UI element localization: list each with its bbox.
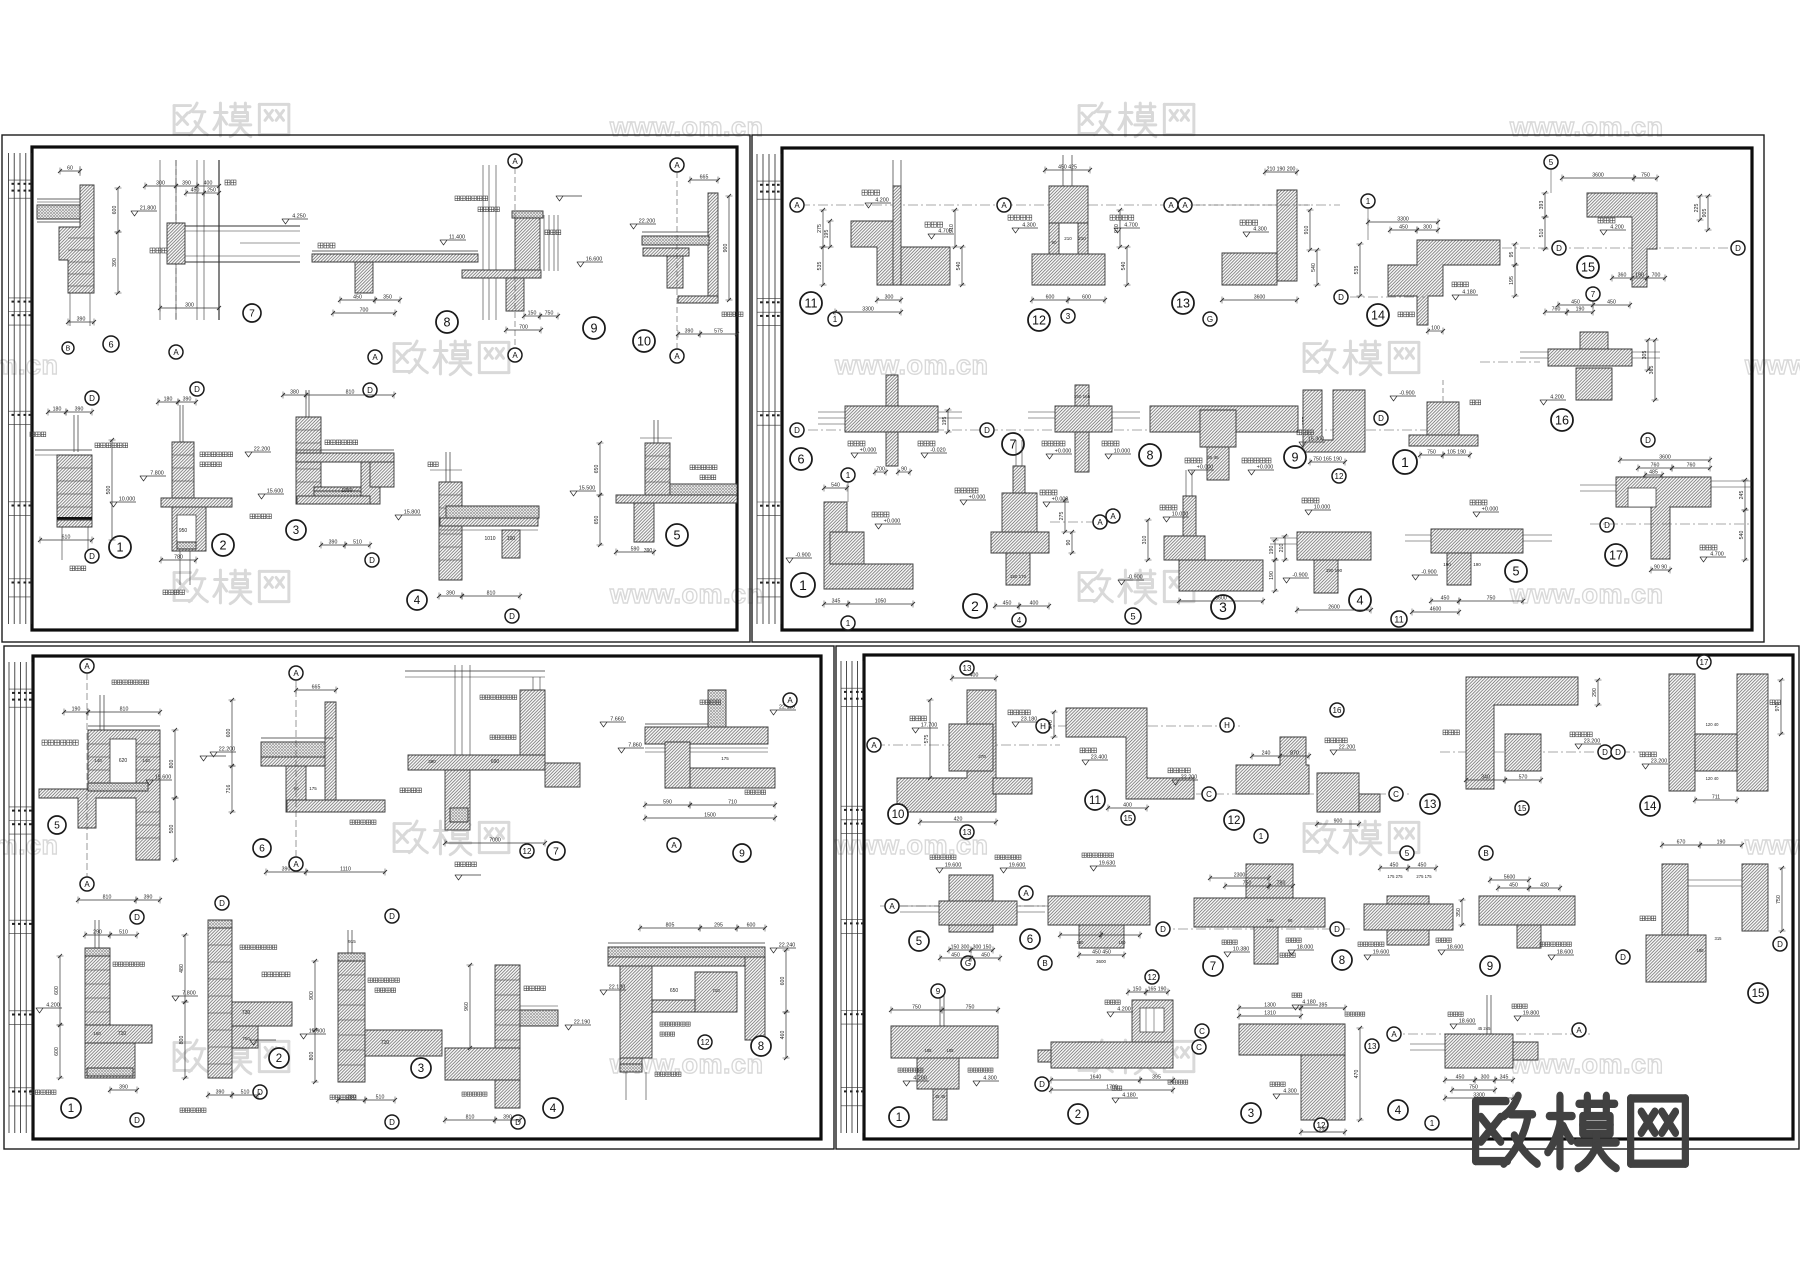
svg-text:700: 700 <box>519 325 528 331</box>
svg-text:1: 1 <box>833 315 838 324</box>
svg-text:A: A <box>1110 512 1116 521</box>
svg-text:4.180: 4.180 <box>1302 1000 1316 1006</box>
svg-text:450: 450 <box>1441 596 1450 602</box>
svg-text:3: 3 <box>293 525 299 537</box>
svg-text:5: 5 <box>1549 158 1554 167</box>
svg-text:13: 13 <box>1368 1042 1377 1051</box>
svg-text:600: 600 <box>226 729 232 738</box>
svg-text:A: A <box>1168 201 1174 210</box>
svg-text:A: A <box>1576 1026 1582 1035</box>
svg-text:D: D <box>1735 244 1741 253</box>
svg-text:D: D <box>367 386 373 395</box>
svg-text:300: 300 <box>156 181 165 187</box>
svg-text:14: 14 <box>1644 801 1657 813</box>
svg-text:150: 150 <box>1119 940 1127 945</box>
svg-text:780: 780 <box>174 555 183 561</box>
svg-text:5: 5 <box>1512 565 1519 579</box>
svg-text:12: 12 <box>1148 973 1157 982</box>
svg-text:390: 390 <box>644 548 653 554</box>
svg-text:175: 175 <box>721 756 729 761</box>
svg-text:16.600: 16.600 <box>586 257 603 263</box>
svg-text:3: 3 <box>1248 1108 1254 1120</box>
svg-text:900: 900 <box>309 991 315 1000</box>
svg-text:600: 600 <box>747 923 756 929</box>
svg-text:390: 390 <box>77 317 86 323</box>
svg-text:A: A <box>84 880 90 889</box>
svg-text:900: 900 <box>723 244 729 253</box>
svg-text:750: 750 <box>1641 173 1650 179</box>
svg-text:19.600: 19.600 <box>1373 950 1390 956</box>
svg-text:+0.000: +0.000 <box>1197 465 1214 471</box>
svg-text:A: A <box>173 348 179 357</box>
svg-text:4.300: 4.300 <box>983 1076 997 1082</box>
svg-text:810: 810 <box>346 390 355 396</box>
svg-text:A: A <box>1097 518 1103 527</box>
svg-text:D: D <box>1604 521 1610 530</box>
svg-text:150: 150 <box>528 311 537 317</box>
svg-text:D: D <box>509 612 515 621</box>
svg-text:15.600: 15.600 <box>155 775 172 781</box>
svg-text:390: 390 <box>183 397 192 403</box>
svg-text:345: 345 <box>832 599 841 605</box>
svg-text:300: 300 <box>185 303 194 309</box>
svg-text:760: 760 <box>1687 463 1696 469</box>
svg-text:300: 300 <box>885 295 894 301</box>
svg-text:450: 450 <box>191 188 200 194</box>
svg-text:10.000: 10.000 <box>1172 512 1189 518</box>
svg-text:22.190: 22.190 <box>574 1020 591 1026</box>
svg-text:250: 250 <box>207 188 216 194</box>
svg-text:22.200: 22.200 <box>219 747 236 753</box>
svg-text:395: 395 <box>1152 1075 1161 1081</box>
svg-text:1: 1 <box>896 1112 902 1124</box>
svg-text:7.660: 7.660 <box>610 717 624 723</box>
svg-text:15: 15 <box>1752 988 1765 1000</box>
svg-text:19.800: 19.800 <box>1523 1011 1540 1017</box>
svg-text:540: 540 <box>956 262 962 271</box>
svg-text:7: 7 <box>1591 290 1596 299</box>
svg-text:1: 1 <box>846 619 851 628</box>
svg-text:8: 8 <box>758 1041 764 1053</box>
svg-text:1: 1 <box>799 578 807 593</box>
svg-text:22.200: 22.200 <box>1181 775 1198 781</box>
svg-text:390: 390 <box>216 1090 225 1096</box>
svg-text:185: 185 <box>947 1048 955 1053</box>
svg-text:750: 750 <box>1487 596 1496 602</box>
svg-text:500: 500 <box>106 486 112 495</box>
svg-text:905: 905 <box>1702 209 1708 218</box>
svg-text:210: 210 <box>1078 236 1086 241</box>
svg-text:730: 730 <box>242 1010 251 1016</box>
svg-text:195: 195 <box>824 230 830 239</box>
svg-text:5: 5 <box>1130 611 1135 621</box>
svg-text:-0.900: -0.900 <box>1292 573 1307 579</box>
svg-text:H: H <box>1224 721 1230 730</box>
svg-text:800: 800 <box>169 760 175 769</box>
svg-text:3600: 3600 <box>1254 295 1266 301</box>
svg-text:5: 5 <box>673 529 680 543</box>
svg-text:390: 390 <box>503 1115 512 1121</box>
svg-text:800: 800 <box>309 1052 315 1061</box>
svg-text:10.000: 10.000 <box>119 497 136 503</box>
svg-text:5: 5 <box>916 936 922 948</box>
svg-text:22.200: 22.200 <box>1339 745 1356 751</box>
svg-text:100: 100 <box>507 536 516 542</box>
svg-text:190: 190 <box>72 707 81 713</box>
svg-text:1110: 1110 <box>340 867 351 873</box>
svg-text:510: 510 <box>1539 229 1545 238</box>
svg-text:18.600: 18.600 <box>1557 950 1574 956</box>
svg-text:18.600: 18.600 <box>1459 1019 1476 1025</box>
svg-text:900: 900 <box>1334 819 1343 825</box>
svg-text:4.200: 4.200 <box>46 1003 60 1009</box>
svg-text:13: 13 <box>963 828 972 837</box>
svg-text:D: D <box>194 385 200 394</box>
svg-text:4.300: 4.300 <box>1283 1089 1297 1095</box>
svg-text:11: 11 <box>1394 614 1404 624</box>
svg-text:120 40: 120 40 <box>1706 776 1719 781</box>
svg-text:430: 430 <box>1540 883 1549 889</box>
svg-text:12: 12 <box>1335 472 1344 481</box>
svg-text:750: 750 <box>912 1005 921 1011</box>
svg-text:16: 16 <box>1555 414 1569 428</box>
svg-text:600: 600 <box>54 986 60 995</box>
svg-text:460: 460 <box>780 1031 786 1040</box>
svg-text:450: 450 <box>1399 225 1408 231</box>
svg-text:390: 390 <box>1319 1127 1328 1133</box>
svg-text:390: 390 <box>182 181 191 187</box>
svg-text:800: 800 <box>179 1036 185 1045</box>
svg-text:13: 13 <box>1176 297 1190 311</box>
svg-text:600: 600 <box>1046 295 1055 301</box>
svg-text:805: 805 <box>666 923 675 929</box>
svg-text:-0.900: -0.900 <box>1127 575 1142 581</box>
svg-text:2300: 2300 <box>1234 873 1246 879</box>
svg-text:711: 711 <box>1712 795 1720 801</box>
svg-text:A: A <box>794 201 800 210</box>
svg-text:A: A <box>871 741 877 750</box>
svg-text:600: 600 <box>54 1047 60 1056</box>
svg-text:22.240: 22.240 <box>779 943 796 949</box>
svg-text:A: A <box>889 902 895 911</box>
svg-text:4.200: 4.200 <box>875 198 889 204</box>
svg-text:3600: 3600 <box>1592 173 1604 179</box>
svg-text:450: 450 <box>1607 300 1616 306</box>
svg-text:B: B <box>1042 959 1047 968</box>
svg-text:C: C <box>1196 1043 1202 1052</box>
svg-text:750: 750 <box>1469 1085 1478 1091</box>
svg-text:19.600: 19.600 <box>1009 863 1026 869</box>
svg-text:15.600: 15.600 <box>309 1029 326 1035</box>
svg-text:510: 510 <box>119 930 128 936</box>
svg-text:D: D <box>89 394 95 403</box>
svg-text:2: 2 <box>276 1053 282 1065</box>
svg-text:C: C <box>1199 1027 1205 1036</box>
svg-text:195: 195 <box>1509 276 1515 285</box>
svg-text:190: 190 <box>1269 571 1275 580</box>
svg-text:575: 575 <box>924 735 930 744</box>
svg-text:650: 650 <box>594 516 600 525</box>
svg-text:485: 485 <box>1649 470 1658 476</box>
svg-text:6: 6 <box>1027 934 1033 946</box>
svg-text:275: 275 <box>817 224 823 233</box>
svg-text:535: 535 <box>1354 266 1360 275</box>
svg-text:C: C <box>1393 790 1399 799</box>
svg-text:www.om.cn: www.om.cn <box>834 350 989 380</box>
svg-text:4: 4 <box>1356 594 1363 608</box>
svg-text:A: A <box>512 157 518 166</box>
svg-text:450 425: 450 425 <box>1058 165 1077 171</box>
svg-text:450: 450 <box>353 295 362 301</box>
svg-text:1: 1 <box>116 541 123 555</box>
svg-text:400: 400 <box>1030 601 1039 607</box>
svg-text:400: 400 <box>1123 803 1132 809</box>
svg-text:D: D <box>1602 748 1608 757</box>
svg-text:A: A <box>1182 201 1188 210</box>
svg-text:D: D <box>1160 925 1166 934</box>
svg-text:700: 700 <box>360 308 369 314</box>
svg-text:4600: 4600 <box>1430 607 1442 613</box>
svg-text:510: 510 <box>376 1095 385 1101</box>
svg-text:G: G <box>965 959 971 968</box>
svg-text:540: 540 <box>1311 263 1317 272</box>
svg-text:160: 160 <box>93 1031 101 1036</box>
svg-text:A: A <box>293 669 299 678</box>
svg-text:710: 710 <box>381 1040 390 1046</box>
svg-text:810: 810 <box>103 895 112 901</box>
svg-text:190: 190 <box>1576 307 1585 313</box>
svg-text:7.860: 7.860 <box>628 743 642 749</box>
svg-text:15: 15 <box>1518 804 1527 813</box>
svg-text:18.000: 18.000 <box>1297 945 1314 951</box>
svg-text:+0.000: +0.000 <box>1257 465 1274 471</box>
svg-text:5: 5 <box>54 821 60 832</box>
svg-text:12: 12 <box>1032 314 1046 328</box>
svg-text:D: D <box>389 912 395 921</box>
svg-text:315: 315 <box>1715 936 1723 941</box>
svg-text:620: 620 <box>119 758 128 764</box>
svg-text:9: 9 <box>1291 451 1298 465</box>
svg-text:12: 12 <box>701 1038 710 1047</box>
svg-text:D: D <box>1334 925 1340 934</box>
svg-text:15: 15 <box>1124 814 1133 823</box>
svg-text:750: 750 <box>1427 450 1436 456</box>
svg-text:210: 210 <box>1279 544 1285 553</box>
svg-text:90: 90 <box>1066 540 1072 546</box>
svg-text:150: 150 <box>1077 940 1085 945</box>
svg-text:510: 510 <box>241 1090 250 1096</box>
svg-text:190: 190 <box>1473 562 1481 567</box>
svg-text:810: 810 <box>487 591 496 597</box>
svg-text:23.200: 23.200 <box>1584 739 1601 745</box>
svg-text:6: 6 <box>108 339 113 349</box>
svg-text:D: D <box>1378 414 1384 423</box>
svg-text:810: 810 <box>120 707 129 713</box>
svg-text:150 170: 150 170 <box>1010 574 1027 579</box>
svg-text:A: A <box>1001 201 1007 210</box>
svg-text:590: 590 <box>663 800 672 806</box>
svg-text:395: 395 <box>1319 1003 1328 1009</box>
svg-text:500: 500 <box>169 825 175 834</box>
svg-text:180: 180 <box>164 397 173 403</box>
svg-text:5600: 5600 <box>1504 875 1516 881</box>
svg-text:540: 540 <box>1739 531 1745 540</box>
svg-text:A: A <box>512 351 518 360</box>
svg-text:380: 380 <box>290 390 299 396</box>
svg-text:365: 365 <box>1649 366 1655 375</box>
svg-text:A: A <box>1391 1030 1397 1039</box>
svg-text:225: 225 <box>1694 204 1700 213</box>
svg-text:4.700: 4.700 <box>1124 223 1138 229</box>
svg-text:1050: 1050 <box>341 488 352 494</box>
svg-text:350: 350 <box>383 295 392 301</box>
svg-text:690: 690 <box>491 759 500 765</box>
svg-text:3600: 3600 <box>1659 455 1671 461</box>
svg-text:400: 400 <box>970 673 979 679</box>
svg-text:470: 470 <box>1354 1070 1360 1079</box>
svg-text:670: 670 <box>1677 840 1686 846</box>
svg-text:400: 400 <box>204 181 213 187</box>
svg-text:760: 760 <box>1651 463 1660 469</box>
svg-text:4: 4 <box>1017 616 1022 625</box>
svg-text:6: 6 <box>797 453 804 467</box>
svg-text:10.380: 10.380 <box>1233 947 1250 953</box>
svg-text:270: 270 <box>1048 720 1054 729</box>
svg-text:390: 390 <box>144 895 153 901</box>
svg-text:1: 1 <box>846 471 851 480</box>
svg-text:910: 910 <box>1114 224 1120 233</box>
svg-text:290: 290 <box>1592 688 1598 697</box>
svg-text:1: 1 <box>68 1103 74 1115</box>
svg-text:+0.000: +0.000 <box>969 495 986 501</box>
svg-text:60: 60 <box>67 166 73 172</box>
svg-text:10.000: 10.000 <box>1114 449 1131 455</box>
svg-text:7.800: 7.800 <box>182 991 196 997</box>
svg-text:390: 390 <box>329 540 338 546</box>
svg-text:D: D <box>1615 748 1621 757</box>
svg-text:780: 780 <box>1277 881 1286 887</box>
svg-text:4: 4 <box>550 1103 557 1115</box>
svg-text:210 190 200: 210 190 200 <box>1267 167 1296 173</box>
svg-text:950: 950 <box>179 528 188 534</box>
svg-text:2: 2 <box>971 599 979 614</box>
svg-text:+0.000: +0.000 <box>1055 449 1072 455</box>
svg-text:14: 14 <box>1371 309 1385 323</box>
svg-text:A: A <box>787 696 793 705</box>
svg-text:590: 590 <box>631 547 640 553</box>
svg-text:45 45: 45 45 <box>935 1094 946 1099</box>
svg-text:3600: 3600 <box>1096 959 1107 964</box>
svg-text:10: 10 <box>637 335 651 349</box>
svg-text:450: 450 <box>1418 863 1427 869</box>
svg-text:540: 540 <box>831 483 840 489</box>
svg-text:420: 420 <box>954 817 963 823</box>
svg-text:3: 3 <box>1219 600 1227 615</box>
svg-text:C: C <box>1206 790 1212 799</box>
svg-text:1: 1 <box>1401 455 1409 470</box>
svg-text:8: 8 <box>443 316 450 330</box>
svg-text:4.200: 4.200 <box>1117 1007 1131 1013</box>
svg-text:600: 600 <box>1082 295 1091 301</box>
svg-text:9: 9 <box>590 322 597 336</box>
svg-text:17.700: 17.700 <box>921 723 938 729</box>
svg-text:D: D <box>1620 953 1626 962</box>
svg-text:www.om.cn: www.om.cn <box>1509 112 1664 142</box>
svg-text:23.200: 23.200 <box>1651 759 1668 765</box>
svg-text:295: 295 <box>714 923 723 929</box>
svg-text:D: D <box>134 913 140 922</box>
svg-text:22.200: 22.200 <box>254 447 271 453</box>
svg-text:D: D <box>984 426 990 435</box>
svg-text:www.om.cn: www.om.cn <box>609 579 764 609</box>
svg-text:17: 17 <box>1609 549 1623 563</box>
svg-text:570: 570 <box>1519 775 1528 781</box>
svg-text:7000: 7000 <box>489 838 501 844</box>
svg-text:4.250: 4.250 <box>292 214 306 220</box>
svg-text:275 175: 275 175 <box>1416 874 1432 879</box>
svg-text:H: H <box>1040 722 1046 731</box>
svg-text:-0.020: -0.020 <box>930 448 945 454</box>
svg-text:1010: 1010 <box>484 536 495 542</box>
svg-text:D: D <box>89 552 95 561</box>
svg-text:140: 140 <box>94 758 102 763</box>
svg-text:240: 240 <box>1262 751 1271 757</box>
svg-text:1: 1 <box>1366 197 1371 206</box>
svg-text:4.300: 4.300 <box>1022 223 1036 229</box>
svg-text:300: 300 <box>1423 225 1432 231</box>
svg-text:910: 910 <box>1304 226 1310 235</box>
svg-text:195: 195 <box>942 417 948 426</box>
svg-text:665: 665 <box>700 175 709 181</box>
svg-text:9: 9 <box>1487 961 1493 973</box>
svg-text:1700: 1700 <box>1106 1085 1118 1091</box>
svg-text:10: 10 <box>892 809 905 821</box>
svg-text:600: 600 <box>780 977 786 986</box>
svg-text:450: 450 <box>1390 863 1399 869</box>
svg-text:650: 650 <box>670 988 679 994</box>
svg-text:D: D <box>219 899 225 908</box>
svg-text:910: 910 <box>949 224 955 233</box>
svg-text:450: 450 <box>1003 601 1012 607</box>
svg-text:450: 450 <box>951 953 960 959</box>
svg-text:A: A <box>674 352 680 361</box>
svg-text:16: 16 <box>1333 706 1342 715</box>
svg-text:11: 11 <box>804 297 817 311</box>
svg-text:390: 390 <box>428 759 436 764</box>
svg-text:175 275: 175 275 <box>1387 874 1403 879</box>
svg-text:710: 710 <box>118 1031 127 1037</box>
svg-text:450: 450 <box>1456 1075 1465 1081</box>
svg-text:750: 750 <box>966 1005 975 1011</box>
svg-text:710: 710 <box>728 800 737 806</box>
svg-text:190: 190 <box>1635 273 1644 279</box>
svg-text:870: 870 <box>1290 751 1299 757</box>
svg-text:665: 665 <box>312 685 321 691</box>
svg-text:A: A <box>671 841 677 850</box>
svg-text:6: 6 <box>259 844 265 855</box>
svg-text:4.200: 4.200 <box>913 1076 927 1082</box>
svg-text:175: 175 <box>309 786 317 791</box>
svg-text:9: 9 <box>739 849 745 860</box>
svg-text:95: 95 <box>1509 252 1515 258</box>
svg-text:G: G <box>1207 315 1213 324</box>
svg-text:18.600: 18.600 <box>1447 945 1464 951</box>
svg-text:1310: 1310 <box>1264 1011 1276 1017</box>
svg-text:3600: 3600 <box>1215 596 1227 602</box>
svg-text:600: 600 <box>112 206 118 215</box>
svg-text:1640: 1640 <box>1090 1075 1102 1081</box>
svg-text:B: B <box>1483 849 1488 858</box>
